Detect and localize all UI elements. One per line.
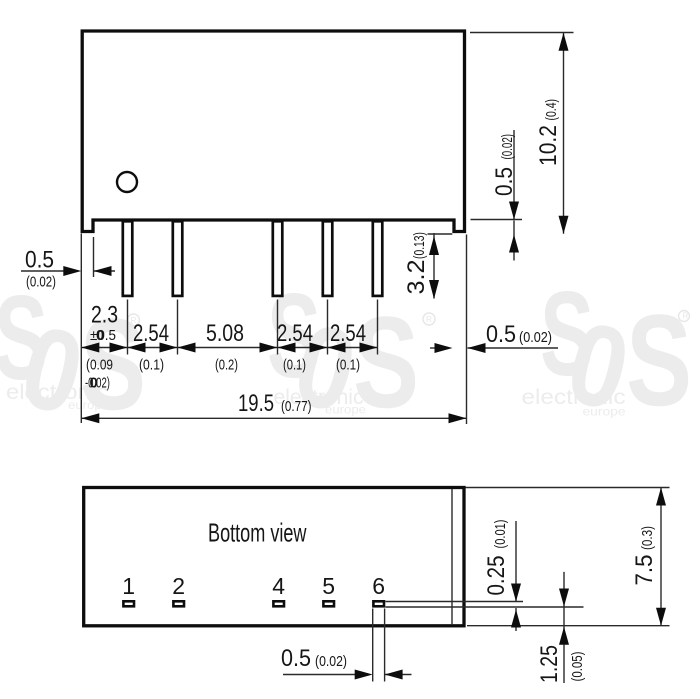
svg-text:2.54: 2.54	[277, 320, 313, 347]
svg-text:0: 0	[90, 375, 98, 392]
svg-text:7.5: 7.5	[631, 555, 658, 586]
svg-text:5: 5	[322, 573, 335, 599]
svg-text:1.25: 1.25	[536, 645, 563, 683]
svg-text:R: R	[683, 312, 689, 321]
svg-text:0: 0	[96, 327, 104, 344]
svg-text:19.5: 19.5	[238, 390, 274, 417]
svg-text:(0.1): (0.1)	[336, 357, 360, 374]
svg-text:S: S	[626, 287, 692, 433]
svg-text:0.5: 0.5	[491, 167, 518, 196]
svg-text:(0.02): (0.02)	[26, 274, 56, 291]
svg-text:5.08: 5.08	[206, 320, 244, 347]
svg-text:3.2: 3.2	[403, 260, 430, 295]
svg-text:(0.4): (0.4)	[543, 99, 560, 121]
svg-text:(0.2): (0.2)	[215, 357, 238, 374]
svg-text:europe: europe	[583, 407, 626, 419]
svg-text:(0.1): (0.1)	[283, 357, 306, 374]
svg-text:4: 4	[272, 573, 285, 599]
svg-text:(0.05): (0.05)	[569, 651, 586, 681]
svg-text:2: 2	[172, 573, 185, 599]
svg-text:0.25: 0.25	[483, 556, 510, 596]
svg-text:0.5: 0.5	[281, 645, 311, 672]
svg-text:(0.3): (0.3)	[639, 526, 656, 550]
svg-text:(0.09: (0.09	[86, 357, 113, 374]
svg-text:europe: europe	[68, 400, 109, 412]
svg-text:2.3: 2.3	[91, 302, 118, 329]
svg-text:6: 6	[372, 573, 385, 599]
svg-text:(0.01): (0.01)	[492, 519, 509, 548]
svg-text:(0.13): (0.13)	[411, 232, 428, 259]
svg-text:R: R	[426, 315, 432, 324]
svg-text:(0.02): (0.02)	[519, 329, 552, 346]
svg-text:0.5: 0.5	[486, 321, 516, 348]
svg-text:Bottom view: Bottom view	[208, 518, 307, 548]
svg-text:europe: europe	[325, 405, 366, 417]
svg-text:2.54: 2.54	[133, 320, 169, 347]
svg-text:(0.77): (0.77)	[281, 398, 312, 415]
svg-text:1: 1	[122, 573, 135, 599]
svg-text:(0.02): (0.02)	[499, 134, 516, 160]
svg-text:(0.1): (0.1)	[139, 357, 164, 374]
svg-text:(0.02): (0.02)	[315, 653, 347, 670]
svg-text:0.5: 0.5	[25, 247, 54, 274]
svg-text:2.54: 2.54	[330, 320, 366, 347]
svg-text:10.2: 10.2	[535, 125, 562, 166]
